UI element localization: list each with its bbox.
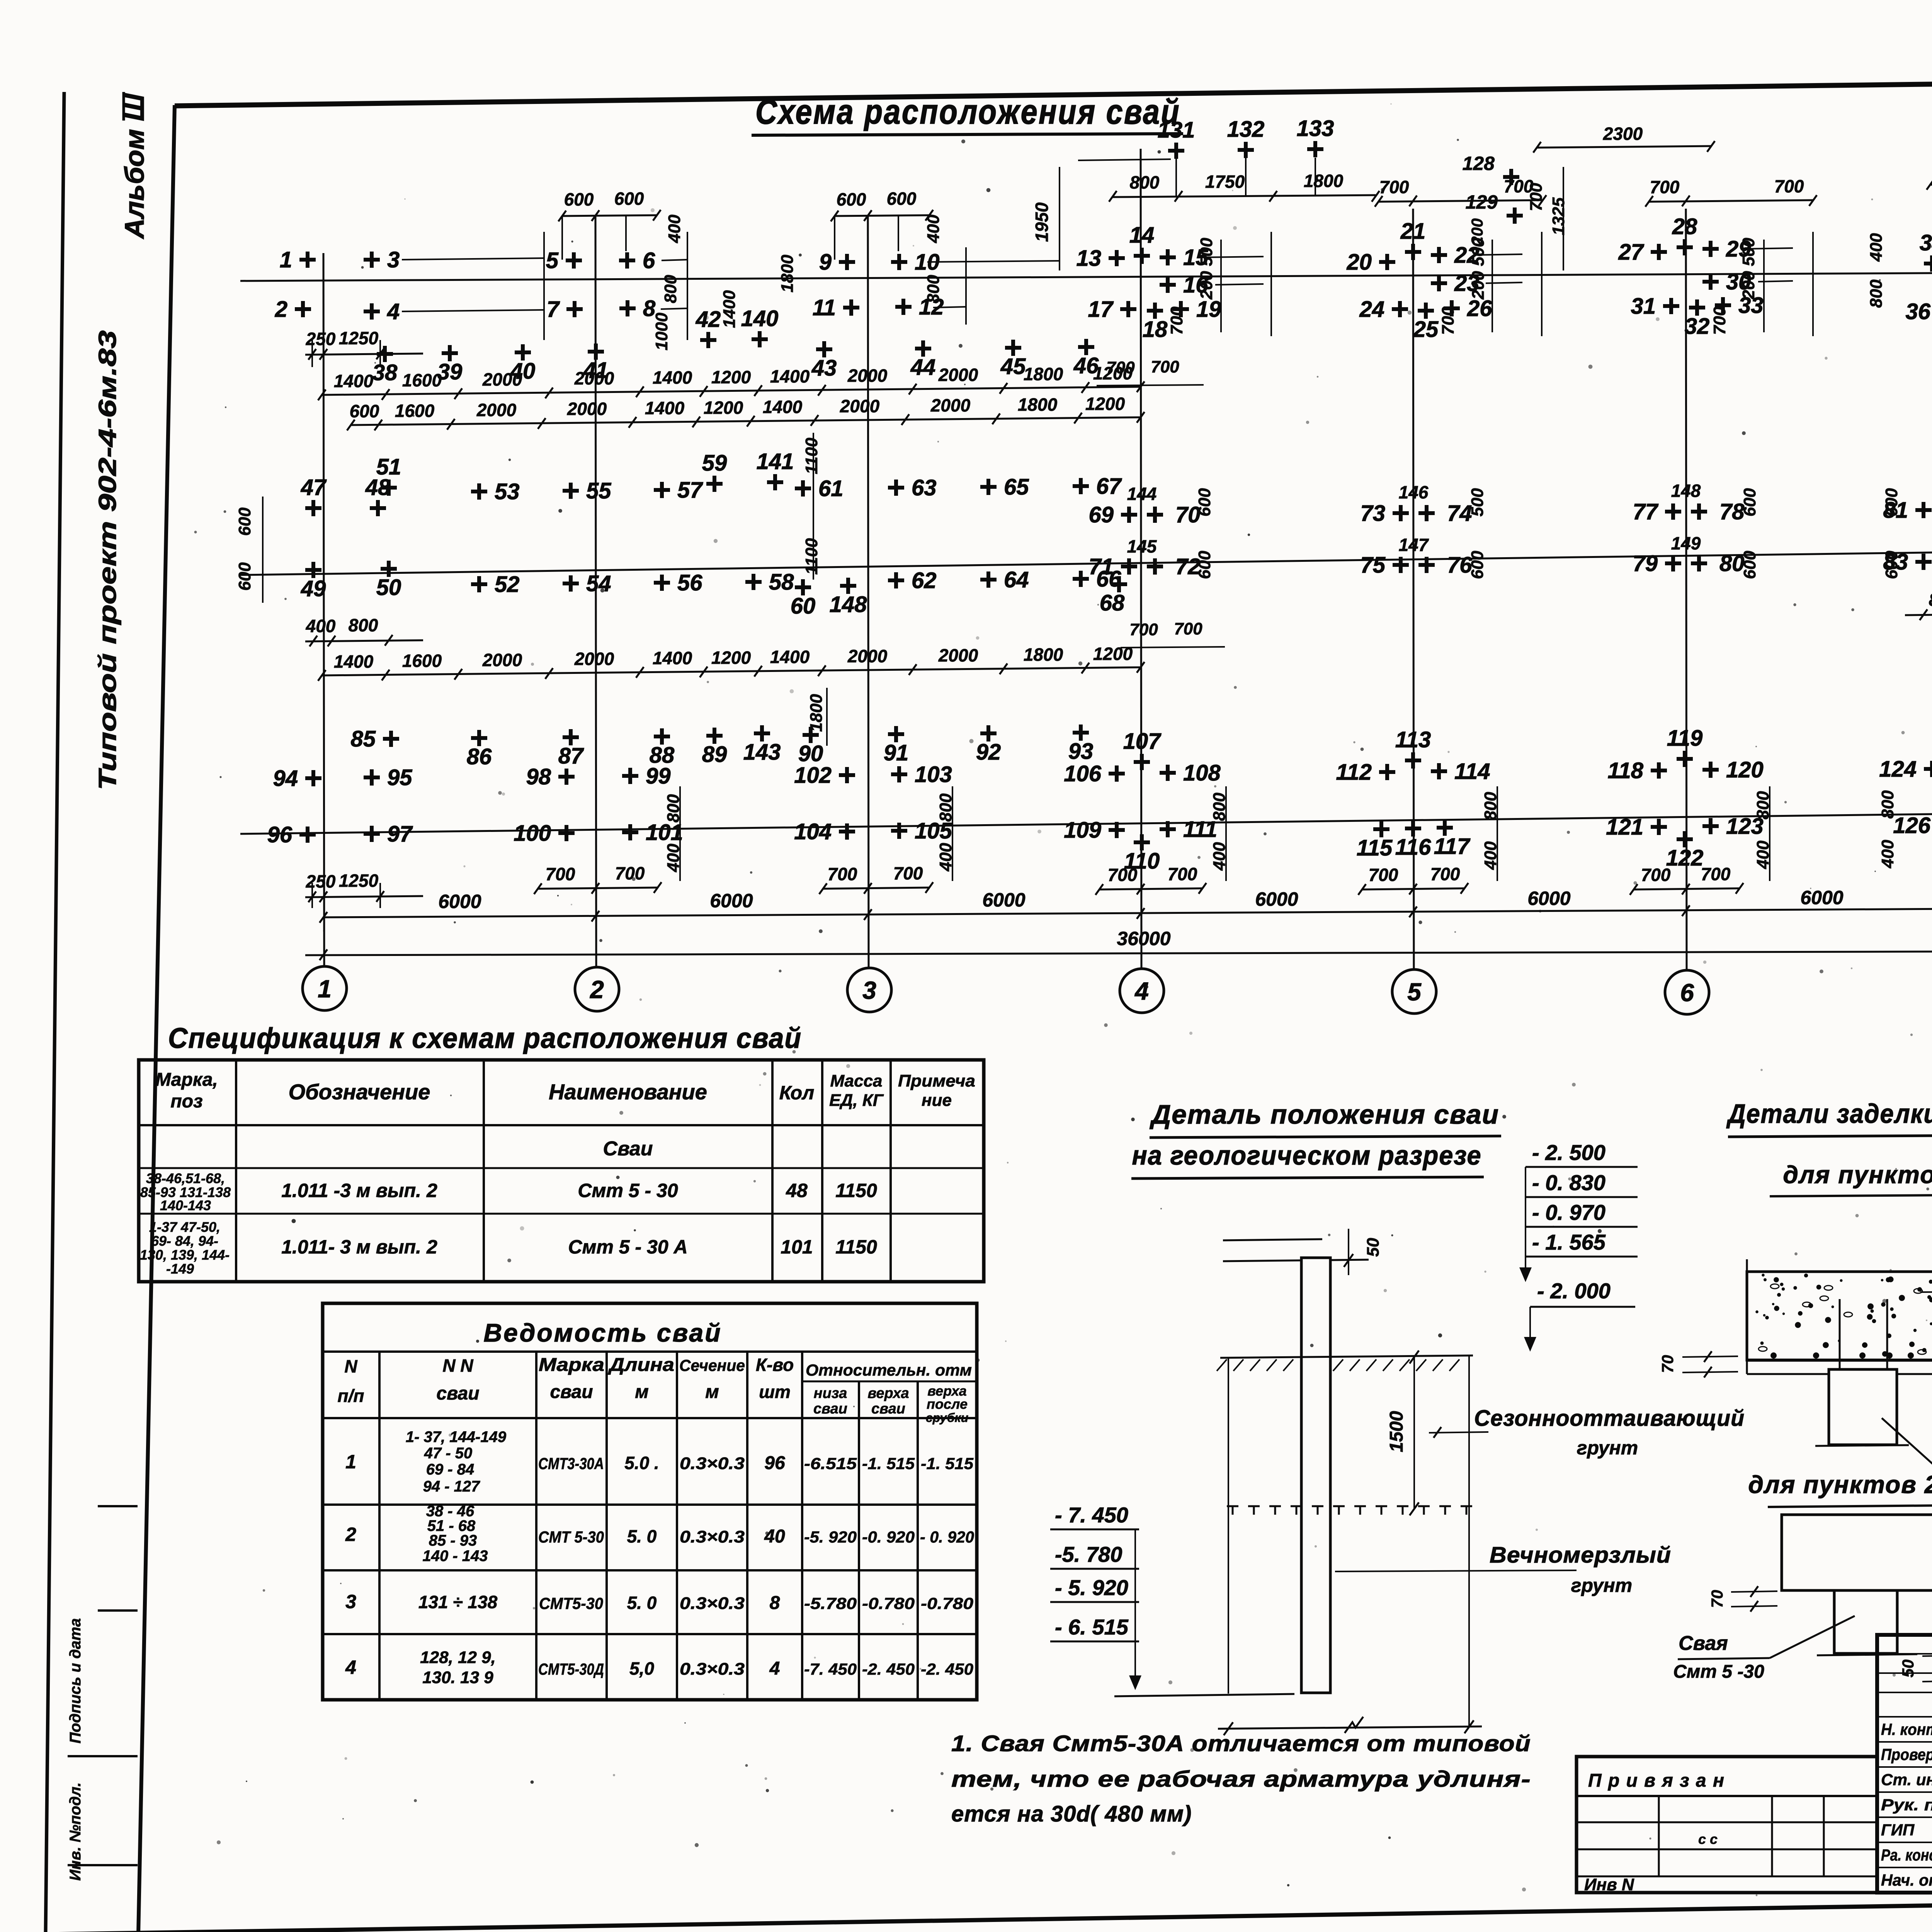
privyazan header line: [1577, 1795, 1877, 1797]
svg-text:- 2. 000: - 2. 000: [1537, 1279, 1611, 1303]
svg-text:шт: шт: [759, 1382, 791, 1402]
pile 132: [1238, 142, 1254, 158]
svg-text:1400: 1400: [770, 647, 810, 667]
svg-text:сваи: сваи: [436, 1383, 479, 1404]
svg-text:50: 50: [1364, 1238, 1383, 1257]
dim 700 700 bottom axis2: [538, 888, 658, 889]
svg-text:250: 250: [306, 871, 336, 891]
svg-text:Инв. №подл.: Инв. №подл.: [67, 1782, 84, 1881]
pile 143: [754, 725, 770, 742]
svg-text:Относительн. отм: Относительн. отм: [806, 1361, 972, 1379]
pile 108: [1160, 765, 1176, 781]
svg-text:6000: 6000: [438, 891, 481, 912]
svg-text:низа: низа: [814, 1385, 847, 1401]
pile 32: [1689, 299, 1705, 316]
svg-text:131 ÷ 138: 131 ÷ 138: [418, 1592, 498, 1612]
pile stub detail2: [1834, 1590, 1897, 1653]
svg-text:700: 700: [1168, 864, 1197, 884]
pile 123: [1702, 818, 1719, 834]
pile 70: [1147, 507, 1163, 523]
svg-text:44: 44: [910, 355, 936, 380]
pile 3: [364, 252, 380, 268]
svg-text:147: 147: [1399, 535, 1429, 555]
ground line with hatching: [1220, 1355, 1473, 1358]
svg-text:1200: 1200: [711, 367, 751, 387]
pile 5: [566, 252, 582, 269]
svg-text:1325: 1325: [1549, 197, 1568, 235]
pile 129: [1507, 207, 1523, 224]
svg-text:8: 8: [770, 1593, 780, 1613]
svg-text:700: 700: [1379, 177, 1409, 197]
svg-text:130. 13 9: 130. 13 9: [422, 1668, 493, 1687]
svg-text:для пунктов 1,4: для пунктов 1,4: [1783, 1161, 1932, 1189]
svg-text:Подпись и дата: Подпись и дата: [67, 1618, 84, 1743]
svg-text:500: 500: [1197, 238, 1216, 266]
pile 72: [1147, 558, 1163, 575]
permafrost dashed line: [1227, 1506, 1238, 1515]
svg-text:400: 400: [1867, 233, 1886, 262]
svg-text:40: 40: [764, 1526, 785, 1547]
svg-text:- 6. 515: - 6. 515: [1055, 1615, 1129, 1639]
pile 43: [816, 341, 832, 357]
pile 46: [1078, 339, 1094, 355]
rostverk block 2: [1782, 1515, 1932, 1590]
pile 140: [752, 331, 768, 347]
svg-text:200: 200: [1197, 271, 1216, 300]
svg-text:верха: верха: [867, 1385, 909, 1401]
pile 17: [1120, 301, 1136, 317]
svg-text:600: 600: [235, 562, 254, 591]
pile 114: [1431, 763, 1447, 779]
svg-text:94: 94: [273, 766, 298, 791]
rebar verticals into pile: [1839, 1299, 1841, 1442]
pile 61: [795, 480, 811, 497]
pile 13: [1109, 250, 1125, 266]
dim chain 1950 right: [1930, 183, 1932, 185]
dimension line 6000 chain: [323, 909, 1932, 917]
pile 55: [563, 483, 579, 499]
svg-text:СМТ3-30А: СМТ3-30А: [538, 1454, 604, 1473]
svg-text:28: 28: [1672, 214, 1697, 239]
axis circle 6: [1665, 970, 1709, 1014]
pile 71: [1121, 558, 1137, 575]
pile 117: [1437, 820, 1453, 836]
svg-text:Нач. отд: Нач. отд: [1881, 1871, 1932, 1889]
svg-text:1750: 1750: [1205, 172, 1245, 192]
dim 800 400 right: [1905, 614, 1932, 615]
svg-text:70: 70: [1708, 1590, 1726, 1608]
axis line A horizontal: [240, 811, 1932, 834]
pile 111: [1160, 821, 1176, 837]
pile 118: [1651, 762, 1667, 779]
svg-text:140-143: 140-143: [160, 1197, 211, 1213]
axis line B horizontal: [240, 549, 1932, 575]
dim chain 700 700 axis5 top: [1379, 200, 1543, 202]
svg-text:5.0 .: 5.0 .: [624, 1453, 659, 1473]
svg-text:114: 114: [1454, 759, 1490, 784]
svg-text:1400: 1400: [653, 648, 692, 668]
svg-text:96: 96: [267, 822, 292, 847]
svg-text:94 - 127: 94 - 127: [423, 1478, 481, 1495]
svg-text:500: 500: [1469, 238, 1488, 266]
svg-text:N: N: [344, 1356, 357, 1376]
svg-text:145: 145: [1127, 536, 1157, 556]
svg-text:112: 112: [1336, 760, 1372, 785]
pile 120: [1702, 762, 1719, 778]
svg-text:- 0. 970: - 0. 970: [1532, 1200, 1605, 1225]
svg-text:- 5. 920: - 5. 920: [1055, 1575, 1128, 1600]
svg-text:800: 800: [1867, 279, 1886, 308]
pile 23: [1431, 275, 1447, 291]
svg-text:ние: ние: [922, 1091, 952, 1110]
pile 11: [843, 299, 859, 316]
svg-text:2000: 2000: [847, 646, 888, 666]
dim 50 below detail2: [1922, 1655, 1932, 1656]
svg-text:2000: 2000: [930, 395, 971, 415]
svg-text:-0.780: -0.780: [921, 1594, 973, 1612]
left soil boundary line: [1228, 1358, 1229, 1694]
svg-text:43: 43: [811, 355, 837, 381]
svg-text:-5.780: -5.780: [804, 1594, 857, 1612]
pile 141: [767, 474, 783, 490]
svg-text:N N: N N: [442, 1355, 473, 1376]
dim 700 700 near pile 46: [1097, 385, 1204, 386]
axis circle 5: [1392, 969, 1436, 1014]
svg-text:Инв N: Инв N: [1584, 1875, 1634, 1894]
pile 92: [980, 725, 997, 742]
svg-text:36: 36: [1905, 299, 1930, 324]
pile 20: [1379, 254, 1395, 270]
vertical axis line 4: [1141, 149, 1141, 969]
svg-text:Ст. инж.: Ст. инж.: [1881, 1770, 1932, 1789]
svg-text:95: 95: [387, 765, 412, 790]
svg-text:-149: -149: [166, 1261, 194, 1277]
svg-text:- 0. 830: - 0. 830: [1532, 1170, 1605, 1195]
svg-text:86: 86: [467, 744, 492, 769]
pile 90: [803, 727, 819, 743]
vertical axis line 3: [868, 216, 869, 968]
pile 105: [891, 823, 907, 839]
svg-text:141: 141: [757, 449, 794, 474]
svg-text:63: 63: [912, 475, 937, 500]
vertical axis line 5: [1413, 209, 1414, 970]
svg-text:56: 56: [677, 570, 702, 595]
svg-text:грунт: грунт: [1577, 1437, 1638, 1459]
svg-text:60: 60: [791, 594, 816, 619]
svg-text:600: 600: [1882, 488, 1901, 517]
svg-text:1.011- 3 м вып. 2: 1.011- 3 м вып. 2: [281, 1236, 437, 1258]
svg-text:61: 61: [818, 476, 844, 501]
pile 89: [706, 728, 723, 744]
svg-text:700: 700: [1369, 865, 1398, 885]
svg-text:700: 700: [1151, 357, 1179, 376]
svg-text:70: 70: [1658, 1355, 1677, 1373]
svg-text:1400: 1400: [653, 367, 692, 388]
pile 47: [305, 500, 321, 516]
svg-text:400: 400: [306, 616, 336, 636]
svg-text:148: 148: [830, 592, 867, 617]
svg-text:48: 48: [786, 1180, 808, 1201]
svg-text:98: 98: [526, 764, 551, 789]
dim 1500 vertical: [1413, 1357, 1415, 1509]
svg-text:1200: 1200: [704, 398, 743, 418]
dimension chain row lower 1400-1600-2000: [322, 667, 1141, 675]
svg-text:700: 700: [1106, 358, 1135, 377]
svg-text:9: 9: [819, 250, 832, 275]
svg-text:91: 91: [884, 740, 909, 765]
pile 60: [795, 579, 811, 595]
svg-text:грунт: грунт: [1571, 1575, 1632, 1596]
pile 52: [471, 576, 487, 592]
pile 7: [566, 301, 583, 317]
vedomost subheader line: [802, 1381, 977, 1383]
svg-text:Масса: Масса: [830, 1071, 882, 1090]
svg-text:4: 4: [769, 1658, 780, 1679]
vertical dim line 1325 axis5-6: [1563, 167, 1564, 270]
svg-text:1. Свая Смт5-30А отличается: 1. Свая Смт5-30А отличается от типовой: [951, 1731, 1531, 1756]
pile 29: [1702, 241, 1719, 257]
pile 98: [558, 769, 575, 785]
svg-text:101: 101: [646, 820, 683, 845]
svg-text:2000: 2000: [938, 645, 978, 665]
pile 45: [1005, 340, 1021, 356]
elevation stack arrow: [1525, 1167, 1526, 1274]
svg-text:49: 49: [301, 576, 326, 601]
pile 9: [839, 254, 855, 270]
pile 16: [1160, 277, 1176, 293]
svg-text:118: 118: [1608, 758, 1644, 783]
svg-text:50: 50: [1899, 1660, 1917, 1678]
pile 80: [1691, 555, 1707, 571]
pile 4: [364, 303, 380, 320]
svg-text:Проверил: Проверил: [1881, 1745, 1932, 1764]
svg-text:1: 1: [280, 247, 292, 272]
svg-text:119: 119: [1667, 726, 1702, 751]
dim tick line: [679, 786, 681, 881]
svg-text:5,0: 5,0: [629, 1658, 654, 1679]
svg-text:на геологическом разрезе: на геологическом разрезе: [1132, 1140, 1482, 1170]
svg-text:25: 25: [1413, 317, 1439, 342]
pile 49: [305, 562, 321, 578]
svg-text:400: 400: [924, 214, 943, 243]
svg-text:4: 4: [345, 1656, 356, 1678]
svg-text:600: 600: [350, 401, 379, 421]
svg-text:600: 600: [887, 189, 917, 209]
svg-text:19: 19: [1196, 297, 1221, 322]
spec table outer border: [139, 1060, 984, 1282]
svg-text:103: 103: [915, 762, 952, 787]
pile 67: [1073, 478, 1089, 494]
svg-text:Смт 5 - 30 А: Смт 5 - 30 А: [568, 1236, 687, 1258]
stems of piles 131-133: [1175, 158, 1177, 197]
svg-text:1-37 47-50,: 1-37 47-50,: [149, 1219, 220, 1235]
pile 115: [1373, 821, 1389, 837]
dimension line 36000 overall: [305, 951, 1932, 955]
svg-text:68: 68: [1100, 590, 1125, 616]
svg-text:0.3×0.3: 0.3×0.3: [680, 1660, 745, 1679]
svg-text:700: 700: [546, 864, 575, 884]
svg-text:77: 77: [1633, 499, 1658, 524]
pile 10: [891, 254, 907, 270]
pile 24: [1392, 301, 1408, 317]
pile 148: [840, 578, 856, 594]
pile 15: [1160, 249, 1176, 265]
pile 128: [1503, 169, 1519, 185]
svg-text:-5. 780: -5. 780: [1055, 1542, 1122, 1566]
pile 93: [1073, 724, 1089, 741]
pile 64: [980, 571, 997, 588]
dim tick line: [1763, 240, 1765, 332]
svg-text:62: 62: [912, 568, 937, 593]
pile 81: [1915, 502, 1932, 518]
pile 77: [1665, 503, 1681, 520]
svg-text:131: 131: [1158, 117, 1195, 143]
pile stub base line: [1815, 1445, 1909, 1446]
svg-text:128: 128: [1463, 153, 1495, 174]
line left of pile 131: [1078, 159, 1171, 160]
svg-text:СМТ 5-30: СМТ 5-30: [538, 1528, 604, 1546]
svg-text:115: 115: [1357, 835, 1393, 861]
svg-text:1200: 1200: [1085, 394, 1125, 414]
svg-text:-5. 920: -5. 920: [804, 1528, 857, 1546]
pile 59: [706, 476, 723, 492]
left margin stamp ticks: [98, 1505, 138, 1507]
svg-text:41: 41: [583, 358, 609, 383]
pile 39: [442, 345, 458, 361]
pile 116: [1405, 820, 1421, 837]
svg-text:34: 34: [1920, 230, 1932, 255]
pile 27: [1651, 244, 1667, 260]
svg-text:3: 3: [862, 976, 876, 1004]
svg-text:700: 700: [1710, 306, 1729, 335]
svg-text:Смт 5 -30: Смт 5 -30: [1673, 1662, 1764, 1682]
pile 41: [588, 344, 604, 360]
vedomost row lines: [323, 1503, 977, 1506]
pile 109: [1109, 822, 1125, 838]
svg-text:1150: 1150: [835, 1236, 877, 1258]
svg-text:26: 26: [1467, 296, 1492, 321]
svg-text:133: 133: [1297, 116, 1334, 141]
dim tick line: [1497, 786, 1498, 881]
svg-text:700: 700: [828, 864, 857, 884]
vertical axis line 6: [1686, 209, 1687, 971]
right soil boundary line: [1468, 1355, 1470, 1727]
svg-text:124: 124: [1879, 757, 1917, 782]
svg-text:Ведомость свай: Ведомость свай: [483, 1318, 722, 1347]
vedomost header row line: [323, 1417, 977, 1419]
pile 101: [622, 824, 638, 840]
dim 700 700 bottom axis5: [1362, 888, 1464, 889]
svg-text:6000: 6000: [1527, 888, 1570, 909]
pile 110: [1134, 834, 1150, 850]
pile 88: [654, 728, 670, 745]
svg-text:Детали заделки сваи: Детали заделки сваи: [1726, 1099, 1932, 1129]
pile 31: [1663, 298, 1679, 314]
svg-text:400: 400: [1878, 840, 1897, 869]
svg-text:6: 6: [643, 248, 655, 273]
svg-text:1250: 1250: [339, 328, 379, 348]
svg-text:сваи: сваи: [550, 1382, 593, 1402]
pile 12: [895, 299, 912, 315]
svg-text:Ра. конст.: Ра. конст.: [1881, 1846, 1932, 1864]
svg-text:50: 50: [376, 575, 401, 600]
svg-text:700: 700: [1174, 619, 1202, 638]
svg-text:99: 99: [646, 764, 671, 789]
svg-text:27: 27: [1618, 240, 1644, 265]
svg-text:2000: 2000: [567, 399, 607, 419]
svg-text:67: 67: [1096, 474, 1122, 499]
pile 48: [370, 500, 386, 516]
pile 19: [1173, 301, 1189, 317]
svg-text:1- 37, 144-149: 1- 37, 144-149: [406, 1429, 507, 1446]
svg-text:0.3×0.3: 0.3×0.3: [680, 1454, 745, 1473]
svg-text:31: 31: [1631, 294, 1656, 319]
svg-text:47: 47: [301, 475, 327, 500]
svg-text:107: 107: [1123, 729, 1162, 754]
svg-text:СМТ5-30: СМТ5-30: [539, 1594, 603, 1612]
svg-text:1400: 1400: [770, 366, 810, 386]
svg-text:132: 132: [1227, 117, 1265, 142]
pile 91: [888, 726, 904, 742]
svg-text:149: 149: [1671, 533, 1701, 553]
dim 250 1250 top left: [305, 354, 423, 355]
pile 2: [295, 301, 311, 317]
svg-text:75: 75: [1360, 553, 1385, 578]
title block outer border: [1877, 1635, 1932, 1893]
axis circle 1: [303, 966, 347, 1010]
svg-text:42: 42: [696, 307, 721, 332]
svg-text:600: 600: [235, 507, 254, 536]
concrete speckle dots: [1755, 1274, 1932, 1357]
svg-text:3: 3: [387, 247, 400, 272]
pile 74: [1418, 505, 1435, 521]
svg-text:7: 7: [547, 297, 560, 322]
dim 400 800 left: [305, 640, 423, 641]
rostverk concrete block: [1747, 1272, 1932, 1360]
svg-text:м: м: [635, 1382, 649, 1402]
svg-text:1100: 1100: [802, 538, 821, 575]
pile 22: [1431, 247, 1447, 263]
svg-text:600: 600: [1882, 551, 1901, 579]
dim 250 1250 bottom left: [305, 896, 423, 897]
pile 102: [839, 767, 855, 783]
svg-text:52: 52: [495, 572, 520, 597]
svg-text:600: 600: [1740, 488, 1759, 517]
svg-text:800: 800: [1878, 790, 1897, 819]
svg-text:1400: 1400: [763, 397, 803, 417]
frame left border (stamp column line): [138, 105, 175, 1932]
dim tick line: [1220, 240, 1222, 332]
axis line V horizontal: [240, 272, 1932, 281]
svg-text:тем, что ее рабочая армату: тем, что ее рабочая арматура удлиня-: [951, 1767, 1531, 1792]
svg-text:700: 700: [1167, 306, 1186, 335]
svg-text:ЕД, КГ: ЕД, КГ: [829, 1091, 884, 1110]
svg-text:5. 0: 5. 0: [627, 1593, 657, 1613]
svg-text:6000: 6000: [1255, 888, 1298, 910]
dim 70 left detail2: [1731, 1591, 1777, 1592]
frame top border: [175, 74, 1932, 106]
svg-text:Наименование: Наименование: [549, 1080, 707, 1104]
pile 73: [1393, 505, 1409, 521]
svg-text:700: 700: [1527, 183, 1546, 211]
svg-text:Сечение: Сечение: [679, 1356, 745, 1374]
svg-text:13: 13: [1076, 246, 1101, 271]
svg-text:800: 800: [1130, 172, 1160, 192]
svg-text:1200: 1200: [711, 648, 751, 668]
pile 50: [381, 561, 397, 577]
svg-text:сваи: сваи: [813, 1401, 847, 1417]
svg-text:700: 700: [1430, 864, 1460, 884]
